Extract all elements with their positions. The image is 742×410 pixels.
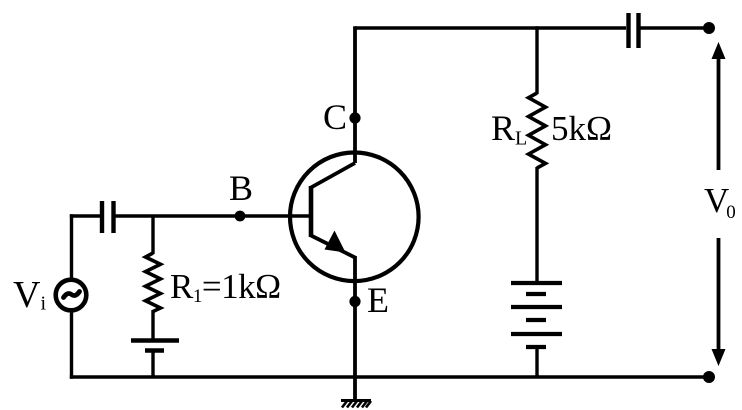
transistor emitter arrow (325, 231, 346, 253)
wire R1 branch top (151, 216, 154, 254)
node output top terminal (703, 22, 715, 34)
wire base from input capacitor to base bar (115, 214, 311, 217)
svg-text:5kΩ: 5kΩ (551, 109, 612, 148)
wire RL branch top (535, 26, 538, 94)
node E (349, 296, 360, 307)
svg-text:Vi: Vi (13, 274, 46, 316)
arrow V0 down (712, 238, 726, 366)
wire battery B2 to bottom rail (535, 347, 538, 377)
node output bottom terminal (703, 371, 715, 383)
wire bottom rail (70, 375, 706, 378)
svg-text:C: C (323, 97, 347, 137)
wire emitter branch down to ground (353, 256, 357, 401)
resistor R1 (146, 253, 161, 312)
battery B2 (511, 283, 562, 347)
svg-text:E: E (367, 280, 389, 320)
node C (349, 112, 360, 123)
ground (341, 401, 371, 408)
wire battery B1 to bottom rail (151, 350, 154, 377)
source Vi AC (56, 280, 87, 311)
svg-text:R1=1kΩ: R1=1kΩ (170, 267, 281, 307)
capacitor C1 input coupling (102, 201, 114, 233)
wire R1 to battery B1 (151, 310, 154, 340)
wire from output capacitor to output top terminal (641, 26, 707, 29)
node B (235, 211, 246, 222)
svg-text:V0: V0 (704, 181, 736, 223)
wire left rail lower (70, 310, 73, 379)
battery B1 (131, 341, 179, 351)
transistor Q1 (290, 153, 419, 282)
wire left rail upper (70, 214, 73, 280)
svg-text:RL: RL (491, 108, 527, 150)
svg-text:B: B (229, 168, 253, 208)
wire top rail from collector corner to output capacitor (355, 26, 626, 29)
resistor RL (529, 93, 546, 168)
wire RL to battery B2 (535, 167, 538, 283)
arrow V0 up (712, 42, 726, 170)
capacitor C2 output coupling (629, 13, 639, 48)
wire from left rail to input capacitor (70, 214, 100, 217)
wire collector branch (353, 26, 357, 163)
